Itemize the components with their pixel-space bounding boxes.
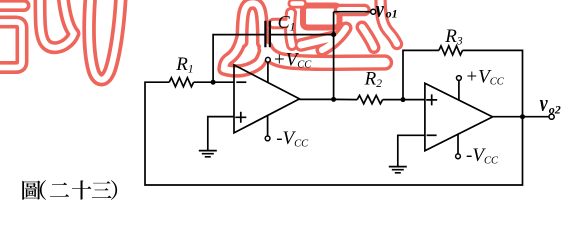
watermark char1 stroke: kou box xyxy=(0,22,22,68)
op-amp U1 triangle xyxy=(234,65,300,133)
+VCC stem U2 xyxy=(458,80,460,100)
svg-text:v: v xyxy=(376,0,384,22)
node B: R2/R3 xyxy=(401,97,406,102)
watermark char1 stroke: vertical hook xyxy=(40,0,74,48)
svg-text:o2: o2 xyxy=(549,102,561,116)
wire: U2 output to vo2 xyxy=(493,116,549,118)
terminal -VCC U1 xyxy=(265,136,270,141)
caption 圖(二十三) xyxy=(22,180,117,200)
U2 minus symbol xyxy=(427,134,437,136)
node A: U1 output xyxy=(331,97,336,102)
ground G1 xyxy=(199,151,217,157)
wire: U1 non-inverting input to ground xyxy=(208,117,234,151)
resistor R2 xyxy=(357,95,383,103)
ground G2 xyxy=(389,167,407,173)
watermark char2 stroke: left leg xyxy=(322,28,346,50)
node C: vo2 xyxy=(520,114,525,119)
watermark: white inner pass xyxy=(0,0,397,80)
wire: vo1 branch vertical xyxy=(334,12,371,100)
watermark char2 stroke: left drop xyxy=(224,38,242,69)
watermark char2 stroke: small bar xyxy=(274,18,291,30)
watermark char1 stroke: slash xyxy=(63,0,74,33)
watermark char2 stroke: top stub xyxy=(293,0,303,9)
-VCC stem U1 xyxy=(267,116,269,136)
watermark char2 stroke: box frame xyxy=(303,6,340,28)
U1 plus symbol xyxy=(235,112,246,123)
terminal +VCC U1 xyxy=(266,57,271,62)
label vo1 xyxy=(376,0,384,22)
op-amp U2 triangle xyxy=(425,83,493,151)
svg-text:o1: o1 xyxy=(386,6,398,20)
wire: R2 to node B to U2 + input xyxy=(383,99,425,101)
watermark char2 stroke: right curl xyxy=(381,0,398,44)
U2 plus symbol xyxy=(426,94,437,105)
-VCC stem U2 xyxy=(457,134,459,154)
terminal vo2 xyxy=(549,114,554,119)
wire: R3 feedback loop xyxy=(403,50,523,116)
wire: C1 right plate to junction xyxy=(270,34,334,36)
terminal -VCC U2 xyxy=(456,154,461,159)
terminal vo1 xyxy=(371,9,376,14)
watermark char2 stroke: sweep main xyxy=(266,48,386,63)
wire: R1 left lead + left feedback leg xyxy=(145,82,523,185)
watermark char2 stroke: right leg xyxy=(362,27,374,48)
+VCC stem U1 xyxy=(267,62,269,82)
node C1/vo1 junction xyxy=(331,32,336,37)
svg-text:v: v xyxy=(540,90,548,117)
wire: U2 inverting input to ground xyxy=(398,135,425,166)
wire: R1 to op-amp U1 inverting input xyxy=(194,81,234,83)
capacitor C1 xyxy=(265,21,270,48)
resistor R3 xyxy=(439,46,463,55)
wire: node to C1 top rail xyxy=(213,35,265,83)
U1 minus symbol xyxy=(236,81,246,83)
watermark char1 stroke: U hook xyxy=(89,0,121,80)
watermark char1 stroke: bar xyxy=(0,0,24,12)
watermark char2 stroke: top bar xyxy=(340,4,365,16)
terminal +VCC U2 xyxy=(457,76,462,81)
wire: U1 output to node A xyxy=(300,98,358,100)
resistor R1 xyxy=(169,78,193,87)
watermark char2 stroke: oval bar xyxy=(301,38,333,46)
label vo2 xyxy=(540,90,548,117)
watermark: outlined red characters, red pass xyxy=(0,0,397,80)
watermark char2 stroke: sweep left xyxy=(224,48,266,71)
watermark char2 stroke: arch xyxy=(242,3,263,43)
watermark char2 stroke: small vertical xyxy=(290,13,292,45)
node R1/C1 junction xyxy=(211,80,216,85)
